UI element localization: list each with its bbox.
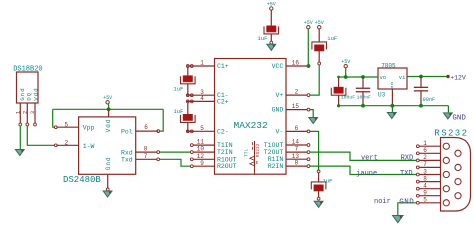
pin Vdd top stub [108, 110, 110, 117]
svg-text:1: 1 [423, 140, 427, 147]
pin 1 stub [19, 103, 21, 123]
wire pin15 GND to ground [310, 110, 313, 117]
junction C8 top [419, 75, 423, 79]
svg-text:100uF: 100uF [341, 94, 356, 100]
svg-text:vo: vo [380, 74, 387, 81]
svg-text:RS232: RS232 [257, 143, 261, 157]
ground below C5 [267, 44, 276, 50]
power +5V above DS2480B [103, 95, 112, 104]
svg-text:3: 3 [423, 168, 427, 175]
wire output rail [339, 76, 378, 78]
ground below C4 [314, 201, 323, 207]
svg-text:RS232: RS232 [434, 129, 468, 139]
svg-text:Gnd: Gnd [105, 156, 112, 170]
DB9 pin 1 contact [443, 143, 449, 149]
power +5V (C3) [315, 20, 324, 29]
power +5V (output) [341, 59, 350, 68]
svg-text:10: 10 [197, 146, 205, 153]
wire bottom rail [339, 105, 449, 107]
wire rail to GND corner [447, 106, 449, 113]
wire rail to Pol pin6 [160, 109, 164, 131]
pin 3 C1- stub [193, 94, 215, 96]
svg-text:U3: U3 [378, 92, 386, 99]
svg-text:GND: GND [399, 199, 414, 207]
svg-text:8: 8 [295, 160, 299, 167]
svg-text:C1+: C1+ [217, 63, 229, 70]
svg-text:DS2480B: DS2480B [63, 175, 101, 185]
pin 7 Txd stub [136, 158, 158, 160]
svg-text:2: 2 [22, 111, 28, 114]
svg-text:TXD: TXD [400, 170, 413, 178]
DB9 pin 8 contact [455, 179, 461, 185]
capacitor C4 1uF [317, 170, 320, 173]
wire vert T2OUT to RXD [310, 152, 417, 160]
svg-text:4: 4 [200, 95, 204, 102]
svg-text:VCC: VCC [272, 63, 284, 70]
svg-text:5: 5 [65, 121, 69, 128]
svg-text:9: 9 [423, 190, 427, 197]
svg-text:C2-: C2- [217, 128, 229, 135]
svg-text:GND: GND [272, 107, 284, 114]
svg-text:7: 7 [144, 153, 148, 160]
internal TTL/RS232 divider [254, 141, 256, 174]
DB9 pin 2 stub [419, 159, 440, 161]
junction 7805 GND [391, 104, 395, 108]
pin 1 C1+ stub [193, 65, 215, 67]
ground below 7805 [387, 113, 396, 119]
DB9 pin 3 contact [443, 171, 449, 177]
capacitor C8 100nF [420, 77, 422, 88]
svg-text:15: 15 [292, 103, 300, 110]
svg-text:6: 6 [144, 124, 148, 131]
svg-text:4: 4 [423, 183, 427, 190]
svg-text:100nF: 100nF [357, 94, 372, 100]
svg-text:1uF: 1uF [174, 85, 184, 92]
svg-text:1: 1 [200, 60, 204, 67]
wire +5V to output rail [345, 68, 347, 77]
wire pin5 to C2 bottom [187, 130, 194, 132]
DB9 pin 5 contact [443, 200, 449, 206]
svg-text:16: 16 [292, 60, 300, 67]
svg-text:V+: V+ [275, 92, 283, 99]
wire +5V rail [53, 108, 164, 110]
svg-text:R2OUT: R2OUT [217, 163, 237, 170]
svg-text:7: 7 [423, 161, 427, 168]
wire +5V symbol drop [108, 104, 110, 109]
svg-text:2: 2 [295, 89, 299, 96]
svg-text:7: 7 [295, 146, 299, 153]
ic U4 MAX232 body [215, 59, 287, 175]
svg-text:1-W: 1-W [83, 143, 95, 150]
regulator U3 7805 body [378, 68, 407, 89]
svg-text:100nF: 100nF [420, 97, 436, 103]
svg-text:Pol: Pol [121, 128, 133, 135]
svg-text:DS18B20: DS18B20 [13, 66, 42, 74]
svg-text:+12V: +12V [450, 75, 466, 82]
power +5V above C5 [267, 1, 276, 10]
svg-text:jaune: jaune [356, 170, 377, 178]
ground below DB9 [393, 216, 403, 223]
svg-text:vert: vert [361, 155, 378, 163]
DB9 pin 5 stub [419, 202, 440, 204]
svg-text:7805: 7805 [381, 63, 396, 70]
DB9 pin 6 contact [455, 150, 461, 156]
pin 5 C2- stub [193, 130, 215, 132]
pin 2 1-W stub [56, 144, 78, 146]
svg-text:R2IN: R2IN [268, 163, 284, 170]
capacitor C6 100uF [338, 77, 340, 87]
DB9 pin 3 stub [419, 174, 440, 176]
svg-text:DQ: DQ [25, 92, 32, 101]
svg-text:T1OUT: T1OUT [264, 142, 284, 149]
corner C6 top [337, 76, 340, 79]
pin 9 R2OUT stub [193, 165, 215, 167]
svg-text:RXD: RXD [401, 154, 414, 162]
svg-text:6: 6 [295, 125, 299, 132]
svg-text:vi: vi [399, 74, 406, 81]
pin 3 stub [34, 103, 36, 123]
pin 14 T1OUT stub [286, 144, 307, 146]
svg-text:14: 14 [292, 139, 300, 146]
svg-text:Vpp: Vpp [83, 125, 95, 132]
junction C6 100nF [361, 75, 365, 79]
capacitor C7 100nF [362, 77, 364, 88]
svg-text:Vdd: Vdd [105, 119, 112, 133]
svg-text:1uF: 1uF [323, 177, 333, 184]
svg-text:2: 2 [423, 154, 427, 161]
svg-text:1uF: 1uF [174, 108, 184, 115]
pin 12 R1OUT stub [193, 158, 215, 160]
pin 4 C2+ stub [193, 100, 215, 102]
wire pin6 V- to C4 [310, 131, 319, 170]
DB9 pin 1 stub [419, 145, 440, 147]
svg-text:1uF: 1uF [327, 35, 337, 42]
svg-text:5: 5 [200, 125, 204, 132]
svg-text:Rxd: Rxd [121, 149, 133, 156]
svg-text:noir: noir [374, 198, 391, 206]
wire 7805 GND to ground [391, 106, 393, 112]
DB9 pin 9 contact [455, 193, 461, 199]
ground below DS18B20 [15, 150, 24, 156]
wire pin3 to C1 bottom [187, 94, 194, 96]
capacitor C2 1uF [187, 103, 189, 115]
junction on rail [107, 107, 111, 111]
junction C7 bottom [361, 104, 365, 108]
DB9 pin 6 stub [419, 152, 440, 154]
svg-text:MAX232: MAX232 [234, 120, 269, 131]
capacitor C5 1uF [270, 10, 272, 26]
DB9 pin 2 contact [443, 157, 449, 163]
sensor U1 DS18B20 body [17, 72, 39, 103]
capacitor C3 1uF [318, 29, 320, 42]
svg-text:5: 5 [423, 197, 427, 204]
pin 13 R1IN stub [286, 158, 307, 160]
ground at pin15 [309, 118, 318, 124]
svg-text:GND: GND [452, 114, 466, 122]
pin 11 T1IN stub [193, 144, 215, 146]
svg-text:6: 6 [423, 147, 427, 154]
wire jaune R2IN to TXD [310, 166, 417, 174]
pin 8 R2IN stub [286, 165, 307, 167]
connector X1 DB9 body [441, 138, 471, 212]
pin Gnd bottom stub [107, 174, 109, 188]
junction C8 bottom [419, 104, 423, 108]
wire GND DB9 pin5 to ground [398, 203, 417, 215]
wire +5V to pin16 VCC [307, 29, 309, 65]
pin 5 Vpp stub [56, 126, 78, 128]
node +12V [446, 75, 449, 78]
pin 16 VCC stub [286, 65, 307, 67]
ground below DS2480B [103, 191, 112, 197]
wire pin2 V+ to C3 [310, 65, 319, 95]
pin 15 GND stub [286, 109, 307, 111]
svg-text:8: 8 [423, 175, 427, 182]
wire DS18B20 pin1 to ground [19, 126, 21, 149]
svg-text:V-: V- [275, 128, 283, 135]
wire input rail [407, 76, 447, 78]
wire Txd to R2OUT [160, 159, 191, 166]
capacitor C1 1uF [187, 67, 189, 76]
pin 2 V+ stub [286, 94, 307, 96]
pin 7805 GND stub [391, 89, 393, 106]
svg-text:2: 2 [65, 139, 69, 146]
svg-text:T2IN: T2IN [217, 149, 233, 156]
svg-text:T1IN: T1IN [217, 142, 233, 149]
pin 10 T2IN stub [193, 151, 215, 153]
svg-text:1: 1 [15, 111, 21, 114]
pin 6 V- stub [286, 130, 307, 132]
ic U2 DS2480B body [79, 117, 136, 174]
pin 2 stub [26, 103, 28, 123]
DB9 pin 8 stub [419, 181, 440, 183]
junction C6 bottom [337, 104, 340, 107]
DB9 pin 9 stub [419, 195, 440, 197]
pin 8 Rxd stub [136, 151, 158, 153]
svg-text:3: 3 [30, 111, 36, 114]
wire Rxd to T2IN [160, 151, 191, 153]
svg-text:T2OUT: T2OUT [264, 149, 284, 156]
DB9 pin 4 contact [443, 186, 449, 192]
DB9 pin 4 stub [419, 188, 440, 190]
wire rail to Vpp pin5 [53, 109, 55, 127]
svg-text:1uF: 1uF [258, 35, 268, 42]
DB9 pin 7 stub [419, 166, 440, 168]
wire pin4 to C2 [187, 100, 194, 102]
wire DS18B20 pin2 to DS2480B 1-W [27, 126, 55, 145]
pin 7 T2OUT stub [286, 151, 307, 153]
svg-text:8: 8 [144, 146, 148, 153]
junction at pin16 [307, 64, 310, 67]
wire pin1 to C1 [187, 65, 194, 67]
DB9 pin 7 contact [455, 164, 461, 170]
pin 6 Pol stub [136, 130, 159, 132]
svg-text:9: 9 [200, 160, 204, 167]
ground at rail end [444, 113, 453, 119]
power +5V (VCC) [304, 20, 313, 29]
svg-text:TTL: TTL [246, 148, 250, 157]
svg-text:Txd: Txd [121, 157, 133, 164]
svg-text:11: 11 [197, 139, 205, 146]
svg-text:C2+: C2+ [217, 98, 229, 105]
svg-text:Vdd: Vdd [33, 87, 40, 100]
junction +5V drop [344, 75, 348, 79]
